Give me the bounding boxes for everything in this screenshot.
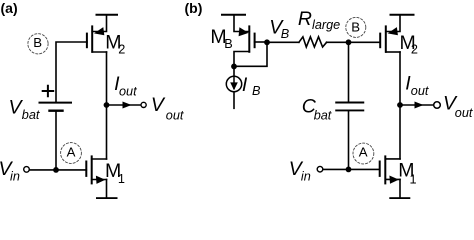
terminal Vin (a): [24, 167, 30, 173]
svg-text:out: out: [411, 84, 429, 98]
wire gate M2 to node B corner to battery: [56, 42, 87, 103]
svg-text:bat: bat: [314, 108, 332, 122]
terminal Vout (b): [434, 102, 441, 109]
svg-text:out: out: [455, 106, 473, 120]
label Cbat: [302, 96, 332, 123]
svg-text:B: B: [33, 35, 42, 50]
svg-text:1: 1: [118, 172, 125, 186]
label IB: [242, 74, 261, 98]
junction battery/Vin: [53, 167, 59, 173]
wire Iout arrow to Vout terminal (b): [400, 102, 434, 109]
wire resistor to M2 gate: [327, 41, 381, 43]
junction Iout (a): [104, 102, 110, 108]
svg-text:out: out: [166, 109, 184, 123]
label M2: [105, 32, 125, 57]
svg-text:large: large: [312, 18, 340, 32]
label Vbat: [9, 96, 40, 122]
node A (a): [61, 143, 82, 164]
svg-text:B: B: [281, 27, 290, 41]
svg-text:2: 2: [118, 42, 125, 56]
ground (b): [389, 197, 410, 200]
svg-text:2: 2: [411, 43, 418, 57]
label MB: [210, 26, 232, 51]
label Iout (b): [405, 73, 429, 99]
wire VB to resistor: [267, 41, 299, 43]
resistor Rlarge: [299, 37, 327, 47]
terminal Vout (a): [141, 102, 146, 107]
wire M1 source to ground (b): [399, 179, 401, 197]
svg-text:1: 1: [410, 172, 417, 186]
svg-text:R: R: [298, 8, 312, 30]
wire M1 source to ground: [106, 180, 108, 198]
junction capacitor bottom: [346, 167, 352, 173]
svg-text:(a): (a): [1, 0, 18, 16]
svg-text:B: B: [224, 37, 232, 51]
battery Vbat: [40, 86, 72, 111]
wire Iout arrow to Vout terminal: [107, 102, 142, 109]
wire drain rail M2 to M1 (b): [399, 52, 401, 159]
svg-text:in: in: [10, 169, 20, 183]
junction MB drain: [231, 64, 237, 70]
svg-text:bat: bat: [22, 108, 40, 122]
junction capacitor top: [346, 39, 352, 45]
svg-text:I: I: [242, 74, 248, 96]
transistor M1: [86, 156, 106, 184]
label M1 (b): [398, 160, 416, 187]
svg-text:V: V: [151, 94, 166, 116]
ground (a): [96, 197, 118, 200]
wire MB gate to VB node: [255, 41, 267, 43]
current source IB: [226, 66, 241, 108]
node B (a): [28, 34, 48, 54]
transistor M2: [87, 15, 107, 52]
svg-text:B: B: [252, 84, 261, 98]
label Rlarge: [298, 8, 340, 32]
label Vin (a): [0, 158, 20, 183]
supply rail (a): [97, 14, 118, 16]
node A (b): [353, 143, 374, 164]
wire Vin to M1 gate (b): [323, 168, 380, 170]
wire drain rail M2 to M1: [106, 52, 108, 159]
wire Vin to M1 gate: [30, 169, 87, 171]
svg-text:(b): (b): [185, 0, 203, 16]
junction Iout (b): [397, 102, 403, 108]
transistor MB: [234, 15, 255, 67]
label M2 (b): [400, 32, 418, 57]
supply rail (b right): [391, 14, 414, 16]
svg-text:A: A: [67, 145, 76, 160]
node B (b): [346, 17, 366, 37]
svg-text:out: out: [119, 85, 137, 99]
wire VB node down and left to MB drain (diode connection): [234, 42, 267, 66]
wire battery to Vin junction: [55, 111, 57, 170]
label Vout (a): [151, 94, 184, 122]
label Vin (b): [289, 158, 311, 183]
label M1: [105, 160, 125, 186]
label VB: [269, 17, 290, 41]
junction VB: [264, 39, 270, 45]
label Vout (b): [443, 93, 473, 120]
supply rail (b left): [222, 14, 245, 16]
capacitor Cbat: [336, 42, 363, 169]
svg-text:B: B: [351, 20, 360, 35]
label Iout (a): [114, 73, 137, 99]
svg-text:A: A: [359, 145, 368, 160]
transistor M1 (b): [380, 156, 400, 183]
terminal Vin (b): [317, 166, 323, 172]
svg-text:in: in: [301, 169, 311, 183]
transistor M2 (b): [380, 15, 400, 52]
